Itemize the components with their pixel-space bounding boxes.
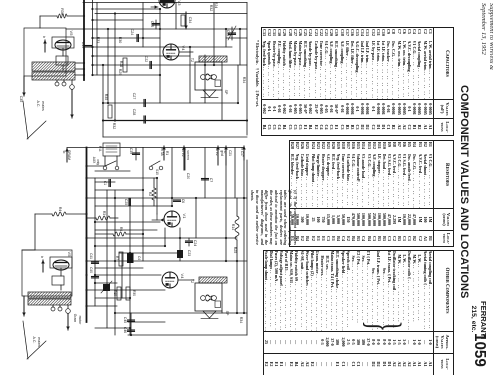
wire [156, 178, 158, 214]
capacitor C6 [174, 199, 186, 203]
svg-text:C45: C45 [123, 317, 127, 323]
capacitor C24 [186, 240, 198, 246]
svg-text:R36: R36 [60, 8, 64, 15]
wire [171, 148, 173, 207]
svg-text:R7: R7 [115, 256, 119, 260]
svg-text:b: b [42, 36, 46, 38]
capacitor C4 electrolytic [127, 253, 141, 263]
wire [234, 148, 236, 199]
capacitor C27 [132, 93, 145, 107]
svg-text:R34: R34 [239, 317, 243, 324]
wire [221, 311, 223, 313]
svg-text:C7: C7 [209, 178, 213, 182]
terminal to V2 grid [217, 146, 219, 165]
CAPACITORS table [261, 27, 454, 135]
svg-text:R25: R25 [233, 247, 237, 254]
wire [96, 3, 98, 76]
svg-text:C40: C40 [89, 267, 93, 273]
fuse terminal [70, 85, 75, 90]
switch S6 contacts [103, 166, 107, 170]
svg-text:mains: mains [41, 101, 45, 111]
wire top rail [67, 147, 143, 149]
trimmer C33 [226, 26, 236, 40]
mains transformer T1 [23, 62, 82, 80]
brace grouping coil values [360, 321, 407, 328]
svg-text:R31: R31 [96, 37, 100, 44]
svg-text:C33: C33 [226, 30, 230, 37]
svg-text:R35: R35 [104, 94, 108, 101]
junction dots [85, 165, 87, 167]
svg-text:R24: R24 [214, 2, 218, 8]
resistor R6 [113, 232, 126, 236]
svg-text:C27: C27 [132, 93, 136, 100]
svg-text:C34: C34 [188, 17, 192, 24]
capacitor C28 [132, 109, 145, 123]
loudspeaker and output transformer T2 [190, 277, 233, 319]
svg-text:C6: C6 [181, 199, 185, 203]
valve V4 [163, 44, 186, 60]
svg-text:R6: R6 [119, 227, 123, 231]
wire [106, 190, 108, 328]
svg-text:C21: C21 [228, 150, 232, 156]
wire [175, 3, 177, 30]
wire [189, 47, 191, 103]
wire [60, 268, 62, 276]
resistor R28 [119, 58, 127, 72]
supplement header [478, 3, 493, 70]
svg-text:T2: T2 [190, 58, 194, 62]
capacitor C19 [81, 42, 92, 49]
svg-text:R28: R28 [119, 61, 123, 67]
wire [164, 228, 166, 246]
valve V5 rectifier [22, 250, 72, 296]
svg-text:R14: R14 [231, 224, 235, 231]
wire [179, 228, 181, 261]
wire [75, 62, 84, 64]
svg-text:C46: C46 [123, 327, 127, 333]
RESISTORS table [289, 140, 454, 246]
wire [93, 19, 143, 21]
capacitor C34 [181, 15, 192, 26]
svg-text:R30: R30 [118, 37, 122, 44]
svg-text:C19: C19 [81, 42, 85, 49]
svg-text:C24: C24 [130, 29, 134, 36]
wire [93, 74, 160, 76]
junction dots [91, 8, 93, 10]
A.C. mains lead [23, 296, 25, 316]
wire [159, 9, 161, 103]
sheet number 1059 [470, 333, 488, 367]
svg-text:C4: C4 [137, 256, 141, 260]
svg-text:C41: C41 [89, 253, 93, 259]
capacitor C39 [129, 148, 140, 160]
capacitor C25 [124, 199, 130, 206]
terminal to C17 [243, 146, 245, 160]
capacitor C23 electrolytic [177, 250, 191, 258]
capacitor C25 [150, 20, 160, 29]
wire HT negative bottom rail [103, 136, 247, 138]
svg-text:A.C.: A.C. [32, 337, 36, 344]
capacitor C22 [144, 56, 151, 69]
lower circuit (receiver section, model 216) [22, 143, 247, 359]
dial lamps [51, 307, 55, 311]
terminal to C21 [225, 146, 227, 165]
wire [213, 3, 215, 66]
voltage adjustment panel box [24, 28, 66, 76]
svg-text:screen: screen [186, 150, 190, 160]
svg-text:R30: R30 [132, 290, 136, 296]
svg-text:C1: C1 [103, 181, 107, 185]
wire [121, 253, 123, 298]
A.C. mains lead [23, 76, 25, 96]
wire [114, 190, 116, 335]
terminal to R1 [163, 146, 165, 160]
wire heavy bus [86, 148, 88, 323]
wire [94, 178, 96, 306]
wire [142, 148, 144, 262]
wire [102, 65, 104, 137]
capacitor C1 [103, 180, 110, 187]
terminal arrow below V3 [185, 12, 187, 29]
wire [66, 28, 247, 30]
ordering note [250, 190, 298, 245]
svg-text:R19: R19 [113, 290, 117, 296]
svg-text:SP: SP [225, 311, 229, 316]
wire [221, 90, 223, 121]
resistor R4 [52, 212, 66, 216]
capacitor C7 [202, 178, 214, 182]
svg-text:V4: V4 [180, 274, 185, 280]
upper circuit (receiver section, model 215) [19, 0, 248, 139]
capacitor C40 [89, 267, 99, 278]
svg-text:C39: C39 [129, 148, 133, 154]
wire [178, 279, 194, 281]
resistor R36 [40, 15, 57, 17]
svg-text:V5: V5 [67, 252, 72, 258]
svg-text:S10: S10 [155, 169, 159, 175]
trimmer C44 [101, 281, 112, 293]
svg-text:P.U.: P.U. [98, 146, 102, 152]
wire [225, 165, 227, 261]
wire [95, 8, 160, 10]
OTHER COMPONENTS table [263, 250, 454, 375]
footnote [256, 40, 261, 107]
valve V4 [162, 272, 185, 288]
terminal to V2 screen [183, 146, 185, 170]
heater box [52, 276, 64, 285]
wire [225, 29, 227, 47]
wire HT top rail [83, 2, 247, 4]
svg-text:R32: R32 [209, 5, 213, 12]
pick-up P.U. [98, 143, 120, 156]
svg-text:only: only [96, 159, 100, 165]
wire [243, 148, 245, 314]
valve V1 [164, 211, 187, 227]
resistor R30 [126, 287, 130, 300]
svg-text:SP: SP [224, 90, 228, 95]
svg-text:R3: R3 [102, 211, 106, 215]
main heading [458, 85, 470, 298]
wire [114, 14, 116, 121]
resistor R19 [117, 287, 121, 300]
wire heavy HT bus [83, 0, 85, 80]
wire [239, 29, 241, 65]
resistor R3 [96, 216, 110, 220]
switch S10 [149, 166, 153, 170]
wire b terminal [44, 40, 46, 52]
svg-text:V5: V5 [69, 31, 74, 37]
heater winding box [56, 56, 68, 65]
svg-text:R2: R2 [148, 192, 152, 196]
wire [93, 37, 160, 39]
wire [129, 198, 131, 335]
gram motor terminal [66, 309, 71, 314]
svg-text:C25: C25 [124, 199, 128, 205]
svg-text:C22: C22 [144, 56, 148, 62]
svg-text:R29: R29 [118, 69, 122, 76]
svg-text:R32: R32 [112, 123, 116, 130]
wire [95, 13, 247, 15]
A.C. mains cord [27, 121, 46, 139]
horizontal wires [87, 165, 106, 167]
svg-text:V3: V3 [177, 1, 182, 7]
svg-text:C23: C23 [187, 250, 191, 256]
wire right rail [246, 160, 248, 335]
svg-text:to C17: to C17 [240, 147, 244, 157]
svg-text:C25: C25 [150, 21, 154, 28]
svg-text:R4: R4 [58, 207, 62, 211]
capacitor C41 [89, 253, 99, 263]
capacitor C24 [130, 29, 138, 42]
junction [83, 62, 85, 64]
valve V5 rectifier [52, 31, 74, 50]
svg-text:C24: C24 [193, 240, 197, 246]
FERRANTI model block [469, 301, 487, 337]
wire [142, 3, 144, 48]
wire [246, 3, 248, 136]
mains transformer T3 [22, 292, 76, 305]
wire [39, 16, 41, 28]
svg-text:motor: motor [78, 316, 82, 326]
svg-text:to 3A: to 3A [160, 148, 164, 156]
valve V3 (clipped at page edge) [159, 0, 182, 8]
svg-text:to: to [62, 151, 66, 154]
wire [93, 64, 247, 66]
wire [93, 55, 190, 57]
svg-text:R34: R34 [242, 77, 246, 84]
grid arrow [152, 219, 160, 221]
svg-text:C20: C20 [186, 173, 190, 179]
svg-text:AUX: AUX [92, 157, 96, 164]
resistor R2 [152, 188, 156, 200]
svg-text:to: to [223, 151, 227, 154]
grid arrow V3 [151, 6, 158, 8]
svg-text:to V2: to V2 [215, 148, 219, 156]
wire [62, 48, 64, 56]
wire b terminal [42, 260, 44, 272]
resistor R14 [236, 198, 238, 216]
loudspeaker and output transformer T2 [190, 56, 233, 98]
svg-text:C28: C28 [132, 109, 136, 116]
svg-text:V1: V1 [182, 214, 187, 220]
svg-text:mains: mains [37, 337, 41, 347]
wire [93, 46, 232, 48]
mains switch contacts [55, 82, 59, 86]
svg-text:A.C.: A.C. [36, 101, 40, 108]
wire [103, 102, 238, 104]
capacitors C45 C46 [123, 313, 135, 335]
wire [204, 148, 206, 199]
wire [103, 120, 247, 122]
wire [143, 147, 244, 149]
svg-text:to V2: to V2 [181, 149, 185, 157]
terminal to gram pick-up [66, 148, 68, 162]
svg-text:T2: T2 [190, 279, 194, 283]
wire [92, 0, 94, 75]
wire [195, 198, 197, 238]
svg-text:V4: V4 [181, 46, 186, 52]
svg-text:R1: R1 [165, 151, 169, 155]
wire [179, 51, 193, 53]
svg-text:C35: C35 [19, 96, 23, 103]
resistor R35 [104, 94, 112, 118]
svg-text:Gram: Gram [73, 314, 77, 323]
svg-text:b: b [40, 256, 44, 258]
svg-text:GRAM: GRAM [67, 150, 71, 160]
wire [204, 55, 206, 103]
resistor R7 [119, 252, 123, 266]
wire [107, 29, 109, 103]
